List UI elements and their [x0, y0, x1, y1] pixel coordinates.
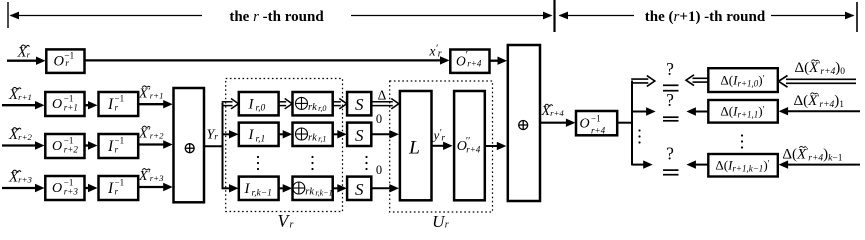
svg-text:0: 0: [376, 163, 382, 177]
svg-text:r: r: [115, 102, 119, 112]
wire X~'_{r+2} to xor1: [138, 140, 173, 148]
svg-text:r: r: [115, 144, 119, 154]
svg-text:I: I: [107, 96, 114, 113]
arrow from Delta(I) box row k-1: [686, 160, 708, 168]
wire X~_{r+3} input: [2, 184, 45, 192]
dots Delta(I) column: [741, 134, 743, 148]
box O^-1_{r+3}: [45, 176, 84, 200]
svg-text:the r -th round: the r -th round: [229, 9, 324, 25]
label X~_{r+4}: [541, 104, 565, 119]
equals sign row k-1: [663, 170, 679, 175]
dots S output column: [365, 156, 367, 170]
box I_{r,1}: [239, 123, 279, 146]
branch vertical Y_r fan-out: [222, 103, 224, 190]
wire O^-1_{r+1} to I_r^-1: [85, 101, 98, 109]
svg-text:O: O: [52, 181, 62, 196]
wire S to L row 1: [371, 130, 399, 138]
label Delta(X~'_{r+4})_{k-1}: [782, 146, 842, 163]
box Delta(I_{r+1,1})': [708, 100, 778, 123]
svg-text:O: O: [54, 53, 65, 69]
box I_{r,k-1}: [239, 177, 279, 200]
equals sign row 1: [663, 117, 679, 121]
label V_r: [278, 211, 294, 231]
wire Y_r: [204, 145, 224, 147]
label Delta(X~'_{r+4})_0: [795, 60, 846, 77]
svg-text:r,0: r,0: [256, 104, 266, 114]
box S row 1: [347, 123, 371, 146]
box O''_{r+4}: [454, 91, 485, 200]
box O_r^-1: [46, 49, 84, 73]
label X~_{r+2}: [8, 127, 33, 143]
wire X~'_{r+1} to xor1: [138, 100, 173, 108]
span arrow: the (r+1)-th round: [559, 12, 855, 20]
wire X~_{r+4}: [540, 119, 575, 127]
label: the r -th round: [229, 9, 324, 25]
label Delta(X~'_{r+4})_1: [794, 93, 845, 110]
box I_r^-1 (row r+1): [99, 92, 139, 116]
svg-text:r+4: r+4: [591, 125, 606, 135]
dots oplus_rk column: [311, 156, 313, 170]
svg-text:?: ?: [666, 59, 674, 79]
branch arrow to compare row 0 (double): [631, 76, 655, 87]
svg-text:S: S: [355, 126, 364, 145]
wire O'' to xor2: [485, 142, 507, 150]
branch arrow to compare row 1: [632, 107, 656, 115]
svg-text:r+2: r+2: [64, 145, 79, 155]
svg-text:r: r: [115, 186, 119, 196]
svg-text:I: I: [248, 127, 255, 143]
branch vertical comparison fan-out: [631, 81, 633, 166]
question mark row 0: [666, 59, 674, 79]
label X~'_{r+1}: [138, 86, 163, 102]
branch arrow to compare row k-1: [632, 160, 653, 168]
box O^-1_{r+2}: [45, 134, 84, 158]
box I_{r,0}: [239, 92, 279, 115]
svg-text:r: r: [65, 59, 69, 69]
svg-text:O: O: [52, 139, 62, 154]
box L linear layer: [400, 91, 432, 200]
wire I to oplus_rk row k-1: [279, 184, 293, 192]
wire Delta(X~'_{r+4})_k-1 input: [779, 160, 860, 168]
label X~_{r+1}: [8, 87, 32, 103]
label X~'_{r+3}: [138, 169, 164, 185]
svg-text:Δ(X′r+4)0: Δ(X′r+4)0: [795, 60, 846, 77]
branch arrow to I_{r,1}: [223, 130, 239, 138]
wire Delta(X~'_{r+4})_0 input: [779, 76, 857, 88]
wire X~'_{r+3} to xor1: [138, 183, 173, 191]
svg-text:r: r: [290, 219, 294, 230]
svg-text:0: 0: [376, 112, 382, 126]
box oplus_rk_{r,1}: [293, 123, 333, 146]
span arrow: the r-th round: [10, 12, 553, 20]
box oplus_rk_{r,0}: [293, 92, 333, 115]
left boundary tick: [7, 2, 9, 28]
svg-text:rk: rk: [308, 133, 317, 144]
svg-text:Δ: Δ: [378, 87, 387, 102]
box I_r^-1 (row r+2): [99, 134, 139, 158]
wire I to oplus_rk row 1: [279, 130, 293, 138]
svg-text:?: ?: [666, 143, 674, 163]
wire y'_r: [432, 142, 453, 150]
wire O^-1_{r+2} to I_r^-1: [85, 141, 98, 149]
label X~_r: [17, 45, 31, 61]
svg-text:S: S: [355, 180, 364, 199]
svg-text:O: O: [580, 116, 590, 131]
box S row k-1: [347, 177, 371, 200]
wire X~_{r+1} input: [2, 101, 45, 109]
svg-text:r+1: r+1: [64, 103, 78, 113]
svg-text:r+4: r+4: [467, 58, 482, 68]
wire oplus_rk to S row k-1: [333, 184, 347, 192]
right boundary tick: [856, 2, 858, 32]
wire O^-1_{r+3} to I_r^-1: [85, 184, 98, 192]
svg-text:r: r: [445, 220, 449, 231]
wire O^-1_{r+4} output: [617, 122, 633, 124]
box Delta(I_{r+1,0})': [708, 68, 778, 92]
xor box combining x'_r and y'_r: [508, 45, 540, 201]
label y'_r: [432, 128, 446, 144]
wire O_r^-1 to O'_{r+4}: [85, 56, 450, 64]
svg-text:O: O: [52, 97, 62, 112]
svg-text:r+4: r+4: [466, 144, 481, 154]
wire X~_r input: [7, 57, 46, 65]
svg-text:r,k−1: r,k−1: [252, 188, 272, 198]
label Delta (S output row 0): [378, 87, 387, 102]
svg-text:?: ?: [666, 90, 674, 110]
wire S to L row 0: [371, 99, 399, 109]
box I_r^-1 (row r+3): [99, 176, 139, 200]
wire oplus_rk to S row 0: [333, 99, 347, 109]
svg-text:I: I: [244, 181, 251, 197]
middle boundary tick: [553, 0, 555, 32]
svg-text:−1: −1: [591, 113, 601, 123]
box S row 0: [347, 92, 371, 115]
box Delta(I_{r+1,k-1})': [708, 154, 778, 177]
dots I column: [257, 156, 259, 170]
label x'_r: [429, 44, 442, 60]
svg-text:rk: rk: [305, 187, 314, 198]
svg-text:I: I: [248, 97, 255, 113]
label U_r: [432, 212, 449, 231]
svg-text:I: I: [107, 138, 114, 155]
label: the (r+1) -th round: [645, 9, 766, 25]
box O'_{r+4}: [450, 50, 489, 73]
wire O'_{r+4} to xor2: [490, 57, 508, 65]
svg-text:r+3: r+3: [64, 187, 79, 197]
wire X~_{r+2} input: [2, 141, 45, 149]
question mark row k-1: [666, 143, 674, 163]
svg-text:the (r+1) -th round: the (r+1) -th round: [645, 9, 766, 25]
xor box combining X'_{r+1..3}: [174, 88, 205, 202]
branch arrow to I_{r,k-1}: [223, 184, 239, 192]
svg-text:O: O: [456, 53, 466, 68]
svg-text:S: S: [355, 95, 364, 114]
label 0 (S output row 1): [376, 112, 382, 126]
svg-text:r,1: r,1: [256, 134, 266, 144]
wire Delta(X~'_{r+4})_1 input: [779, 107, 860, 115]
label X~'_{r+2}: [138, 126, 164, 142]
label 0 (S output row k-1): [376, 163, 382, 177]
box O^-1_{r+4}: [576, 111, 617, 135]
svg-text:I: I: [107, 180, 114, 197]
box oplus_rk_{r,k-1}: [293, 177, 333, 200]
equals sign row 0: [663, 85, 679, 90]
svg-text:rk: rk: [308, 102, 317, 113]
wire I to oplus_rk row 0: [279, 99, 293, 109]
dashed box U_r: [390, 81, 493, 212]
svg-text:r,k−1: r,k−1: [315, 189, 332, 198]
arrow from Delta(I) box row 0: [686, 75, 708, 86]
svg-text:L: L: [408, 138, 420, 159]
svg-text:Δ(X′r+4)1: Δ(X′r+4)1: [794, 93, 845, 110]
question mark row 1: [666, 90, 674, 110]
box O^-1_{r+1}: [45, 92, 84, 116]
wire oplus_rk to S row 1: [333, 130, 347, 138]
label Y_r: [207, 127, 219, 142]
label X~_{r+3}: [8, 170, 33, 186]
arrow from Delta(I) box row 1: [686, 107, 708, 115]
svg-text:r,0: r,0: [318, 104, 326, 113]
svg-text:r,1: r,1: [318, 135, 326, 144]
dots comparison fan-out: [638, 129, 640, 143]
branch arrow to I_{r,0} (double): [222, 99, 239, 109]
wire S to L row k-1: [371, 184, 399, 192]
dashed box V_r: [226, 79, 343, 212]
